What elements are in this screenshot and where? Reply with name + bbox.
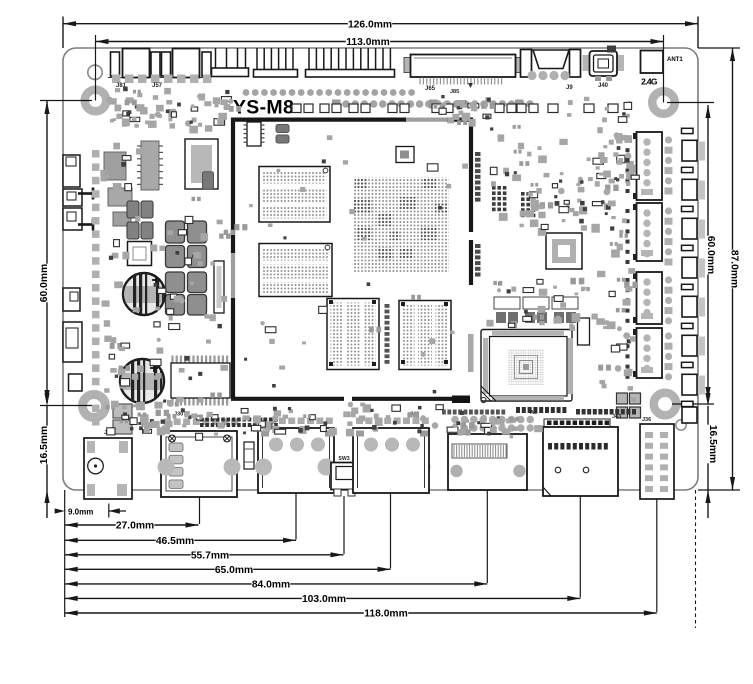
dimension 126.0mm label [348, 17, 392, 29]
dimension 27.0mm label [116, 519, 155, 531]
right header J53 [637, 328, 663, 378]
mounting hole bottom-right [654, 393, 677, 416]
dark caps small cluster [127, 201, 139, 218]
right edge connector boxes column [682, 128, 694, 133]
svg-text:J65: J65 [425, 86, 436, 92]
switch SW3 [331, 463, 358, 490]
pin row right bottom [576, 409, 580, 415]
component cluster below-qfp [485, 428, 491, 435]
right header J53 left pins [626, 334, 630, 338]
plated hole above top-left [88, 65, 102, 79]
component cluster below-module-left [165, 421, 173, 427]
left IC row 1 [104, 152, 126, 180]
antenna mounting hole top-right [652, 91, 675, 114]
dimension 60.0mm right line [707, 105, 709, 400]
dimension 126.0mm extension line left [62, 17, 64, 49]
component cluster top-left-1 [130, 117, 140, 121]
svg-text:84.0mm: 84.0mm [252, 580, 290, 591]
slot connector right of QFP [578, 318, 590, 345]
dimension 16.5mm right label [704, 425, 716, 464]
dimension 27.0mm line [65, 524, 199, 526]
svg-text:J9: J9 [566, 85, 573, 91]
svg-text:J43: J43 [612, 414, 621, 420]
connector extension lines to bottom dims [199, 497, 201, 524]
module outline right edge [469, 118, 473, 233]
dimension 87.0mm right line [732, 48, 734, 490]
DDR chip U2 [259, 244, 332, 297]
SD card slot J43 [543, 427, 618, 496]
component cluster right-of-module-mid [592, 314, 598, 320]
pin header A [256, 48, 258, 70]
dimension 87.0mm right label [725, 250, 737, 289]
QFP chip U8 [481, 330, 572, 402]
svg-text:J36: J36 [642, 417, 651, 423]
capacitor bank above QFP [494, 297, 520, 309]
strip left of QFP [468, 334, 474, 372]
pad row under headers [243, 89, 250, 96]
pin row left of QFP below [442, 410, 446, 415]
svg-text:27.0mm: 27.0mm [116, 521, 154, 532]
dimension 9.0mm [108, 504, 110, 518]
component cluster below-module [417, 429, 421, 433]
right header J50 left pins [626, 138, 630, 142]
left pad column [92, 150, 100, 158]
left edge connector C5 [63, 322, 82, 362]
component cluster right-of-module-upper [624, 135, 632, 143]
svg-text:9.0mm: 9.0mm [68, 508, 93, 517]
DDR chip U4 [399, 301, 451, 370]
component cluster module-inner [260, 321, 264, 325]
connector J81 group [108, 77, 210, 79]
DDR chip U3 [327, 299, 379, 370]
IC U6 in module [396, 147, 414, 163]
pin strip right of module [475, 152, 481, 156]
regulator IC gray [141, 141, 159, 190]
svg-text:J57: J57 [152, 83, 163, 89]
YS-M8 pairs row [292, 104, 301, 113]
connector J36 [640, 424, 674, 499]
DC jack J41 [84, 438, 132, 499]
DDR chip U1 [259, 167, 330, 223]
component cluster top-left-2 [214, 119, 225, 126]
dimension 55.7mm label [191, 548, 230, 560]
svg-text:J85: J85 [450, 89, 459, 95]
left edge connector C1 [63, 155, 80, 187]
dimension 103.0mm line [65, 597, 581, 599]
mounting hole bottom-left [83, 395, 106, 418]
left edge connector C2 [63, 189, 82, 206]
comb-pin IC bottom-left [171, 356, 173, 364]
right header J50 [637, 132, 663, 200]
USB connector lugs [158, 459, 175, 476]
IC U5 in module [247, 122, 261, 146]
bottom-right capacitor pair 2 [617, 407, 628, 418]
capacitor cluster B [166, 272, 185, 293]
component cluster top-right-bits [602, 118, 607, 123]
dimension 16.5mm left line [46, 406, 48, 518]
dimension 113.0mm extension line left [95, 35, 97, 101]
dimension 60.0mm left label [41, 264, 53, 303]
dimension 16.5mm right line [707, 406, 709, 518]
left edge connector C6 [69, 374, 83, 391]
dimension 87.0mm extension bottom [698, 489, 740, 491]
pin row below QFP [516, 407, 520, 413]
bottom dimensions shared extension line [64, 490, 66, 617]
dimension 84.0mm line [65, 583, 488, 585]
svg-text:87.0mm: 87.0mm [729, 250, 740, 288]
dimension 113.0mm line [96, 41, 664, 43]
tie bar marks [78, 192, 93, 195]
component cluster top-mid [459, 111, 464, 115]
svg-text:2.4G: 2.4G [641, 77, 658, 87]
capacitor cluster A [166, 221, 185, 243]
svg-text:16.5mm: 16.5mm [39, 426, 50, 464]
PCB board outline [63, 48, 698, 490]
component cluster left-col [125, 184, 132, 191]
svg-text:126.0mm: 126.0mm [348, 19, 392, 30]
component cluster bottom-left-bits [120, 419, 123, 423]
svg-text:65.0mm: 65.0mm [215, 565, 253, 576]
svg-text:16.5mm: 16.5mm [707, 425, 718, 463]
dimension 113.0mm label [346, 35, 390, 47]
right header J52 pin pads [665, 276, 672, 283]
right header J52 [637, 272, 663, 324]
svg-text:60.0mm: 60.0mm [39, 264, 50, 302]
pin strip right of module 2 [475, 244, 481, 248]
dimension 55.7mm line [65, 554, 344, 556]
svg-text:55.7mm: 55.7mm [191, 551, 229, 562]
svg-text:YS-M8: YS-M8 [233, 97, 294, 119]
left edge connector C4 [63, 288, 80, 311]
FPC connector J65 [404, 58, 411, 73]
module outline bottom edge [231, 397, 344, 401]
dimension 118.0mm label [364, 607, 408, 619]
HDMI connector J5 [451, 416, 459, 424]
right header J53 pin pads [665, 332, 672, 339]
right header J51 left pins [626, 209, 630, 213]
dark capacitor single [203, 172, 214, 190]
left edge connector C3 [63, 208, 82, 230]
module outline top edge [231, 117, 406, 121]
dimension 126.0mm line [63, 23, 698, 25]
dimension 60.0mm left line [46, 101, 48, 403]
capacitor pair left-bottom [113, 404, 132, 418]
pin row below module [200, 418, 204, 422]
CPU BGA land pattern [354, 177, 449, 272]
svg-text:46.5mm: 46.5mm [156, 536, 194, 547]
right header J51 [637, 203, 663, 261]
component cluster right-col-scatter [631, 398, 636, 402]
pin strip between DDR3 and DDR4 [385, 304, 390, 308]
pin grid cluster right of module [492, 186, 496, 190]
USB connector J42 [356, 418, 363, 425]
pin header J57 4-pin [215, 48, 217, 69]
dimension 65.0mm line [65, 568, 391, 570]
dimension 65.0mm label [215, 563, 254, 575]
QFN chip U7 [546, 233, 582, 269]
svg-text:J40: J40 [598, 83, 609, 89]
ladder contact strip in J30 [169, 443, 183, 452]
dimension 84.0mm label [252, 578, 291, 590]
dimension 46.5mm line [65, 539, 296, 541]
small hole bottom-right [676, 420, 686, 430]
dimension 103.0mm label [302, 592, 346, 604]
dimension 60.0mm left ticks [40, 100, 92, 102]
svg-text:ANT1: ANT1 [667, 57, 683, 63]
svg-text:60.0mm: 60.0mm [705, 236, 716, 274]
capacitors near U5 [276, 125, 289, 133]
dimension 46.5mm label [156, 534, 195, 546]
board right edge dashed extension [695, 490, 697, 628]
vertical connector left of module [214, 261, 224, 313]
dimension 113.0mm extension line right [663, 35, 665, 103]
dimension 126.0mm extension line right [697, 17, 699, 49]
svg-text:113.0mm: 113.0mm [346, 37, 390, 48]
right header J52 left pins [626, 278, 630, 282]
bottom-right capacitor pair 1 [617, 393, 628, 404]
SD card pin row [544, 419, 610, 432]
dark part near J40 [607, 46, 616, 53]
pin header B [308, 48, 310, 70]
pad row 2 under FPC [342, 100, 350, 108]
dimension 16.5mm left label [41, 426, 53, 465]
svg-text:SW3: SW3 [338, 456, 349, 462]
mounting hole top-left [85, 90, 107, 112]
svg-text:118.0mm: 118.0mm [364, 609, 408, 620]
power IC white [185, 139, 218, 189]
svg-text:103.0mm: 103.0mm [302, 594, 346, 605]
dimension 60.0mm right label [702, 236, 714, 275]
USB connector J30 [164, 419, 171, 426]
right header J50 pin pads [665, 136, 672, 143]
module outline left edge [231, 118, 235, 254]
inductor L1 [128, 242, 152, 266]
relay part between connectors [244, 442, 254, 469]
component cluster left-mid [157, 338, 161, 342]
dimension 87.0mm extension top [698, 47, 740, 49]
wifi module 2.4G [641, 51, 664, 74]
connector J9 [521, 50, 532, 78]
dimension 118.0mm line [65, 612, 657, 614]
connector J40 mini-USB [583, 55, 589, 71]
dimension 60.0mm right ticks [667, 102, 714, 104]
USB connector J6 [260, 418, 267, 425]
right header J51 pin pads [665, 207, 672, 214]
